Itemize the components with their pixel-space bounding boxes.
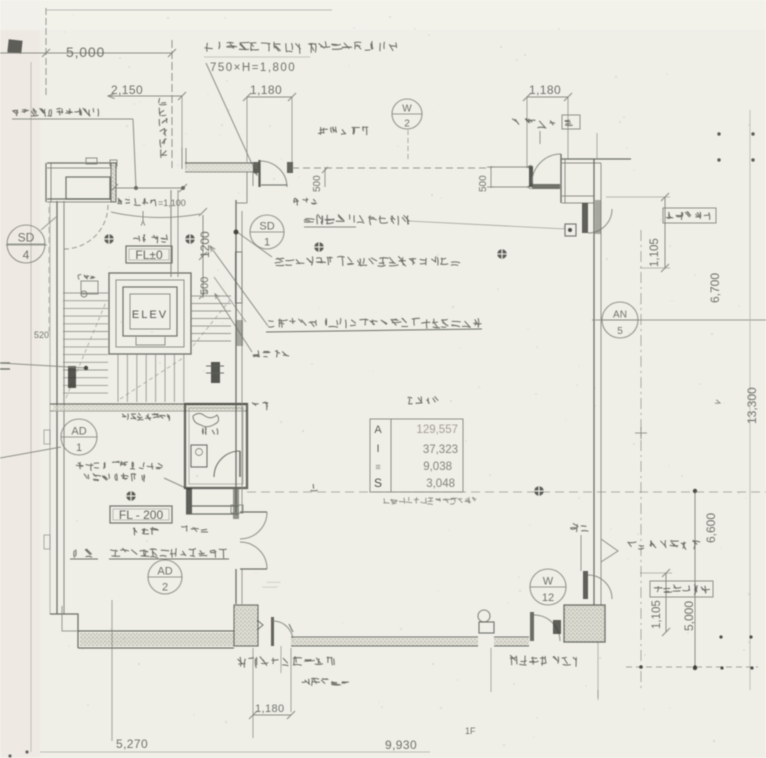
area table bbox=[370, 419, 463, 492]
central wall between block and room bbox=[235, 200, 237, 513]
wall segment before right door bbox=[491, 166, 529, 168]
leader from left margin to stair bbox=[0, 363, 86, 368]
vestibule right jamb wall bbox=[111, 163, 116, 202]
stamp mark left margin bbox=[7, 39, 22, 53]
boundary dashed line x172 bbox=[171, 40, 173, 168]
svg-text:1: 1 bbox=[264, 237, 270, 249]
leader to toilet wall bbox=[164, 478, 190, 490]
SD4 circle label bbox=[7, 225, 45, 263]
elevator note underlined bbox=[268, 318, 481, 329]
5000 dim line lower right bbox=[694, 491, 696, 668]
corner block hatched bbox=[234, 605, 258, 646]
W12 door leaf bbox=[583, 571, 588, 599]
svg-text:2: 2 bbox=[404, 118, 410, 129]
top wall of left block bbox=[47, 162, 117, 164]
small note right of name bbox=[181, 526, 208, 532]
left outer wall upper part bbox=[45, 163, 47, 202]
corridor wall x171 bbox=[170, 190, 172, 277]
svg-text:129,557: 129,557 bbox=[416, 424, 458, 436]
svg-text:AD: AD bbox=[71, 426, 86, 438]
leader to lower note bbox=[215, 294, 252, 352]
chevron arrow right side bbox=[601, 539, 618, 562]
svg-text:500: 500 bbox=[199, 277, 211, 295]
bottom-left wall step bbox=[50, 614, 78, 648]
switch box with dot bbox=[565, 224, 576, 236]
bottom door near machine room bbox=[530, 612, 534, 641]
handrail dimension line in hall bbox=[114, 187, 183, 189]
dim 1180 bottom bbox=[253, 714, 291, 716]
svg-text:5,000: 5,000 bbox=[66, 44, 105, 60]
svg-text:4: 4 bbox=[23, 248, 30, 262]
horizontal line through A5 bbox=[592, 319, 766, 321]
right outer wall bbox=[593, 159, 595, 605]
note under machine room bbox=[510, 655, 577, 666]
left frame border line bbox=[30, 62, 32, 752]
door chevron mark bbox=[257, 620, 263, 630]
second parallel leader bbox=[214, 277, 246, 322]
leader from note to wall dot bbox=[237, 232, 272, 257]
svg-text:SD: SD bbox=[259, 221, 274, 233]
svg-text:ELEV: ELEV bbox=[132, 309, 168, 321]
small mark on dashed line bbox=[310, 484, 317, 491]
wall section dark bar right bbox=[211, 362, 220, 383]
elevator car bbox=[123, 287, 177, 336]
W12 circle label bbox=[530, 569, 566, 605]
toilet door arc bbox=[214, 451, 240, 477]
bottom-left door leaf bbox=[271, 617, 274, 646]
toilet WC fixture squiggle bbox=[193, 414, 219, 427]
storage note two lines bbox=[76, 461, 163, 471]
svg-text:I: I bbox=[376, 443, 379, 455]
stair treads lower flight vertical bbox=[118, 354, 184, 402]
vestibule bottom wall bbox=[562, 195, 594, 197]
handrail text H=1100 bbox=[117, 198, 155, 206]
handrail curve bbox=[111, 212, 200, 218]
dry area boxed label bbox=[663, 208, 716, 223]
svg-text:1: 1 bbox=[76, 442, 82, 454]
svg-text:AN: AN bbox=[613, 310, 627, 321]
svg-text:6,700: 6,700 bbox=[708, 273, 722, 303]
extension above right wall bbox=[596, 133, 598, 159]
leader from left edge to AD1 bbox=[0, 447, 61, 458]
electric symbol hall left bbox=[104, 234, 113, 243]
grid dash continuation left bbox=[48, 207, 50, 332]
toilet basin bbox=[191, 445, 207, 467]
centerline x46 bbox=[45, 8, 47, 96]
dashed line y667 bottom right bbox=[626, 666, 758, 668]
note line middle bbox=[275, 256, 461, 266]
left outer wall stair section bbox=[56, 201, 58, 614]
boxed label emergency entry right bbox=[512, 118, 555, 128]
leader diagonal from title to door bbox=[206, 63, 257, 175]
fix window box on stair wall bbox=[81, 281, 98, 294]
note texts bottom center bbox=[238, 657, 335, 669]
svg-text:9,930: 9,930 bbox=[385, 738, 417, 752]
bottom-left door arc bbox=[273, 621, 293, 641]
main door arc bbox=[260, 161, 287, 187]
svg-text:500: 500 bbox=[478, 175, 489, 192]
svg-text:FL±0: FL±0 bbox=[135, 248, 163, 262]
top-right door jamb dark bbox=[529, 166, 533, 187]
FL-200 level box bbox=[110, 506, 172, 523]
svg-text:1,180: 1,180 bbox=[250, 83, 282, 97]
window symbol W2 circle bbox=[392, 99, 422, 129]
door sill line bbox=[261, 184, 287, 186]
13300 dim line right edge bbox=[749, 110, 751, 690]
extension from 2150 to wall stub bbox=[181, 96, 183, 150]
wall under stairwell bbox=[50, 403, 247, 405]
dimension 1180 top-right bbox=[527, 96, 568, 98]
svg-text:1,105: 1,105 bbox=[649, 238, 661, 267]
500 dim left segment bbox=[324, 167, 326, 187]
500 note and leader bbox=[570, 523, 588, 532]
svg-text:W: W bbox=[543, 576, 554, 588]
extension line x491 below wall bbox=[490, 648, 492, 692]
FL+-0 level box bbox=[126, 246, 172, 263]
leader from evacuation text to box bbox=[408, 221, 566, 229]
small note text near W2 bbox=[318, 126, 368, 135]
small note at stair foot bbox=[253, 350, 289, 357]
dim 1105 lower right bbox=[665, 573, 667, 632]
double door to big room leaf1 bbox=[240, 511, 267, 513]
svg-text:6,600: 6,600 bbox=[704, 513, 718, 543]
electric symbol storage bbox=[126, 491, 135, 500]
area table title bbox=[408, 396, 439, 404]
W12 door arc bbox=[588, 575, 612, 599]
stair up-direction dashed diagonal left bbox=[66, 302, 106, 398]
dim 1105 upper right bbox=[664, 197, 666, 268]
long dashed line y492 bbox=[247, 491, 766, 493]
window notches on left wall bbox=[44, 430, 50, 444]
bottom wall band continues bbox=[494, 638, 529, 646]
grid continuation x598 bbox=[597, 642, 599, 698]
svg-text:S: S bbox=[374, 476, 382, 490]
extension x599 bottom bbox=[597, 690, 599, 700]
grid dash line x638 bbox=[640, 230, 642, 690]
elevator door bracket bbox=[136, 337, 165, 345]
top-right door leaf bbox=[532, 184, 560, 189]
machine room stippled bbox=[564, 605, 605, 642]
top frame border line bbox=[46, 9, 332, 11]
wall below toilet bbox=[186, 488, 192, 514]
bottom wall band center with stipple bbox=[291, 638, 478, 646]
boxed label lower right bbox=[650, 581, 713, 597]
svg-text:750×H=1,800: 750×H=1,800 bbox=[210, 62, 296, 74]
svg-text:13,300: 13,300 bbox=[745, 387, 759, 424]
extension line x112 bbox=[111, 600, 113, 741]
A5 circle label bbox=[602, 302, 638, 338]
corridor name text bbox=[252, 402, 268, 411]
toilet name text bbox=[202, 427, 217, 435]
main door jambs bbox=[253, 162, 259, 173]
pilaster bumps on top wall bbox=[86, 158, 97, 164]
stair treads right flight bbox=[191, 296, 231, 341]
extension lines 1180 bottom bbox=[252, 648, 254, 738]
svg-text:500: 500 bbox=[312, 175, 323, 192]
svg-text:A: A bbox=[374, 424, 382, 436]
dashed outer wall with windows bbox=[292, 167, 491, 169]
label otsu-bou fire door text bbox=[12, 108, 98, 117]
bottom wall band left section with stipple bbox=[80, 633, 234, 646]
wall section dark bar left bbox=[68, 366, 76, 388]
svg-text:W: W bbox=[402, 104, 412, 115]
corridor dim line 1200/500 bbox=[202, 215, 204, 298]
svg-text:AD: AD bbox=[157, 566, 172, 578]
stub walls above hall bbox=[181, 148, 183, 169]
svg-text:12: 12 bbox=[542, 592, 554, 604]
svg-text:37,323: 37,323 bbox=[423, 444, 458, 456]
evacuation device text bbox=[304, 214, 410, 225]
stair up-direction dashed diagonal right bbox=[193, 300, 230, 346]
note under table bbox=[383, 497, 476, 505]
svg-text:=1,100: =1,100 bbox=[158, 198, 186, 208]
junction dot on wall bbox=[234, 230, 239, 235]
electric symbol on dashed line bbox=[534, 486, 543, 495]
title: emergency entrance text bbox=[205, 41, 397, 54]
svg-text:1200: 1200 bbox=[198, 231, 212, 258]
note text right of chevron bbox=[627, 540, 700, 550]
note +30 H=1100 bbox=[122, 413, 170, 421]
svg-text:2: 2 bbox=[162, 582, 168, 594]
otsu-bou underlined note bbox=[74, 549, 92, 558]
svg-text:5,270: 5,270 bbox=[116, 737, 148, 751]
small note under door bbox=[293, 198, 317, 206]
main door leaf bbox=[258, 160, 260, 187]
svg-text:520: 520 bbox=[34, 330, 49, 340]
vestibule top wall bbox=[561, 158, 631, 160]
double door to big room leaf2 bbox=[240, 568, 267, 570]
svg-text:9,038: 9,038 bbox=[423, 461, 452, 473]
svg-text:1,180: 1,180 bbox=[529, 83, 561, 97]
dimension 5000 top-left bbox=[0, 52, 172, 54]
SD1 circle label bbox=[250, 215, 284, 249]
toilet room walls (dark) bbox=[185, 404, 247, 488]
500 dim near top door bbox=[490, 166, 492, 188]
wall corner step below door bbox=[236, 172, 253, 203]
bottom frame line bbox=[40, 751, 430, 753]
stair treads upper flight bbox=[63, 293, 108, 393]
AD1 circle label bbox=[61, 419, 97, 455]
dimension 2150 bbox=[108, 95, 182, 97]
svg-text:1F: 1F bbox=[465, 726, 476, 736]
leader from elevator note to corridor dim bbox=[210, 246, 268, 326]
svg-text:5,000: 5,000 bbox=[682, 601, 696, 631]
hall entry door dashed arc bbox=[64, 205, 108, 249]
dimension 1180 top-center bbox=[247, 96, 292, 98]
electric symbol hall right bbox=[185, 234, 194, 243]
elevator shaft outer wall bbox=[109, 273, 191, 354]
vestibule inner room bbox=[66, 177, 110, 199]
svg-text:2,150: 2,150 bbox=[111, 83, 143, 97]
leader down from fire-door label bbox=[133, 119, 136, 188]
electric symbols big room top bbox=[314, 242, 323, 251]
left edge wall-section mark bbox=[0, 362, 10, 364]
dark wall chunk bbox=[236, 320, 243, 346]
svg-text:≡: ≡ bbox=[375, 462, 380, 472]
vestibule lower door leaf bbox=[582, 203, 588, 233]
svg-text:SD: SD bbox=[18, 231, 35, 245]
door pocket on corridor wall bbox=[236, 252, 243, 303]
wall under vestibule bbox=[47, 198, 111, 200]
shelf wall band under toilet bbox=[186, 505, 239, 507]
svg-text:3,048: 3,048 bbox=[426, 478, 455, 490]
svg-text:5: 5 bbox=[617, 326, 623, 337]
svg-text:1,105: 1,105 bbox=[651, 600, 663, 629]
hall top wall hatched bbox=[185, 164, 253, 172]
shelf box left of door bbox=[231, 505, 243, 513]
boundary line vertical caption bbox=[159, 98, 168, 158]
top-right door swing arc bbox=[532, 154, 561, 183]
cross tick on grid line bbox=[635, 432, 647, 434]
svg-text:1,180: 1,180 bbox=[255, 703, 285, 715]
storage room name text bbox=[133, 527, 159, 535]
svg-text:FL - 200: FL - 200 bbox=[119, 508, 164, 522]
ghost sketch marks bbox=[262, 582, 280, 587]
vestibule left wall bbox=[560, 154, 562, 203]
dash line under W2 bbox=[407, 130, 409, 162]
column fixture on bottom wall bbox=[478, 610, 490, 622]
hall name text bbox=[133, 234, 167, 243]
registration dots right margin bbox=[717, 132, 720, 135]
stair up-direction dashed diagonal lower bbox=[120, 358, 183, 399]
vestibule lower door arc bbox=[588, 209, 612, 233]
AD2 circle label bbox=[148, 560, 182, 594]
